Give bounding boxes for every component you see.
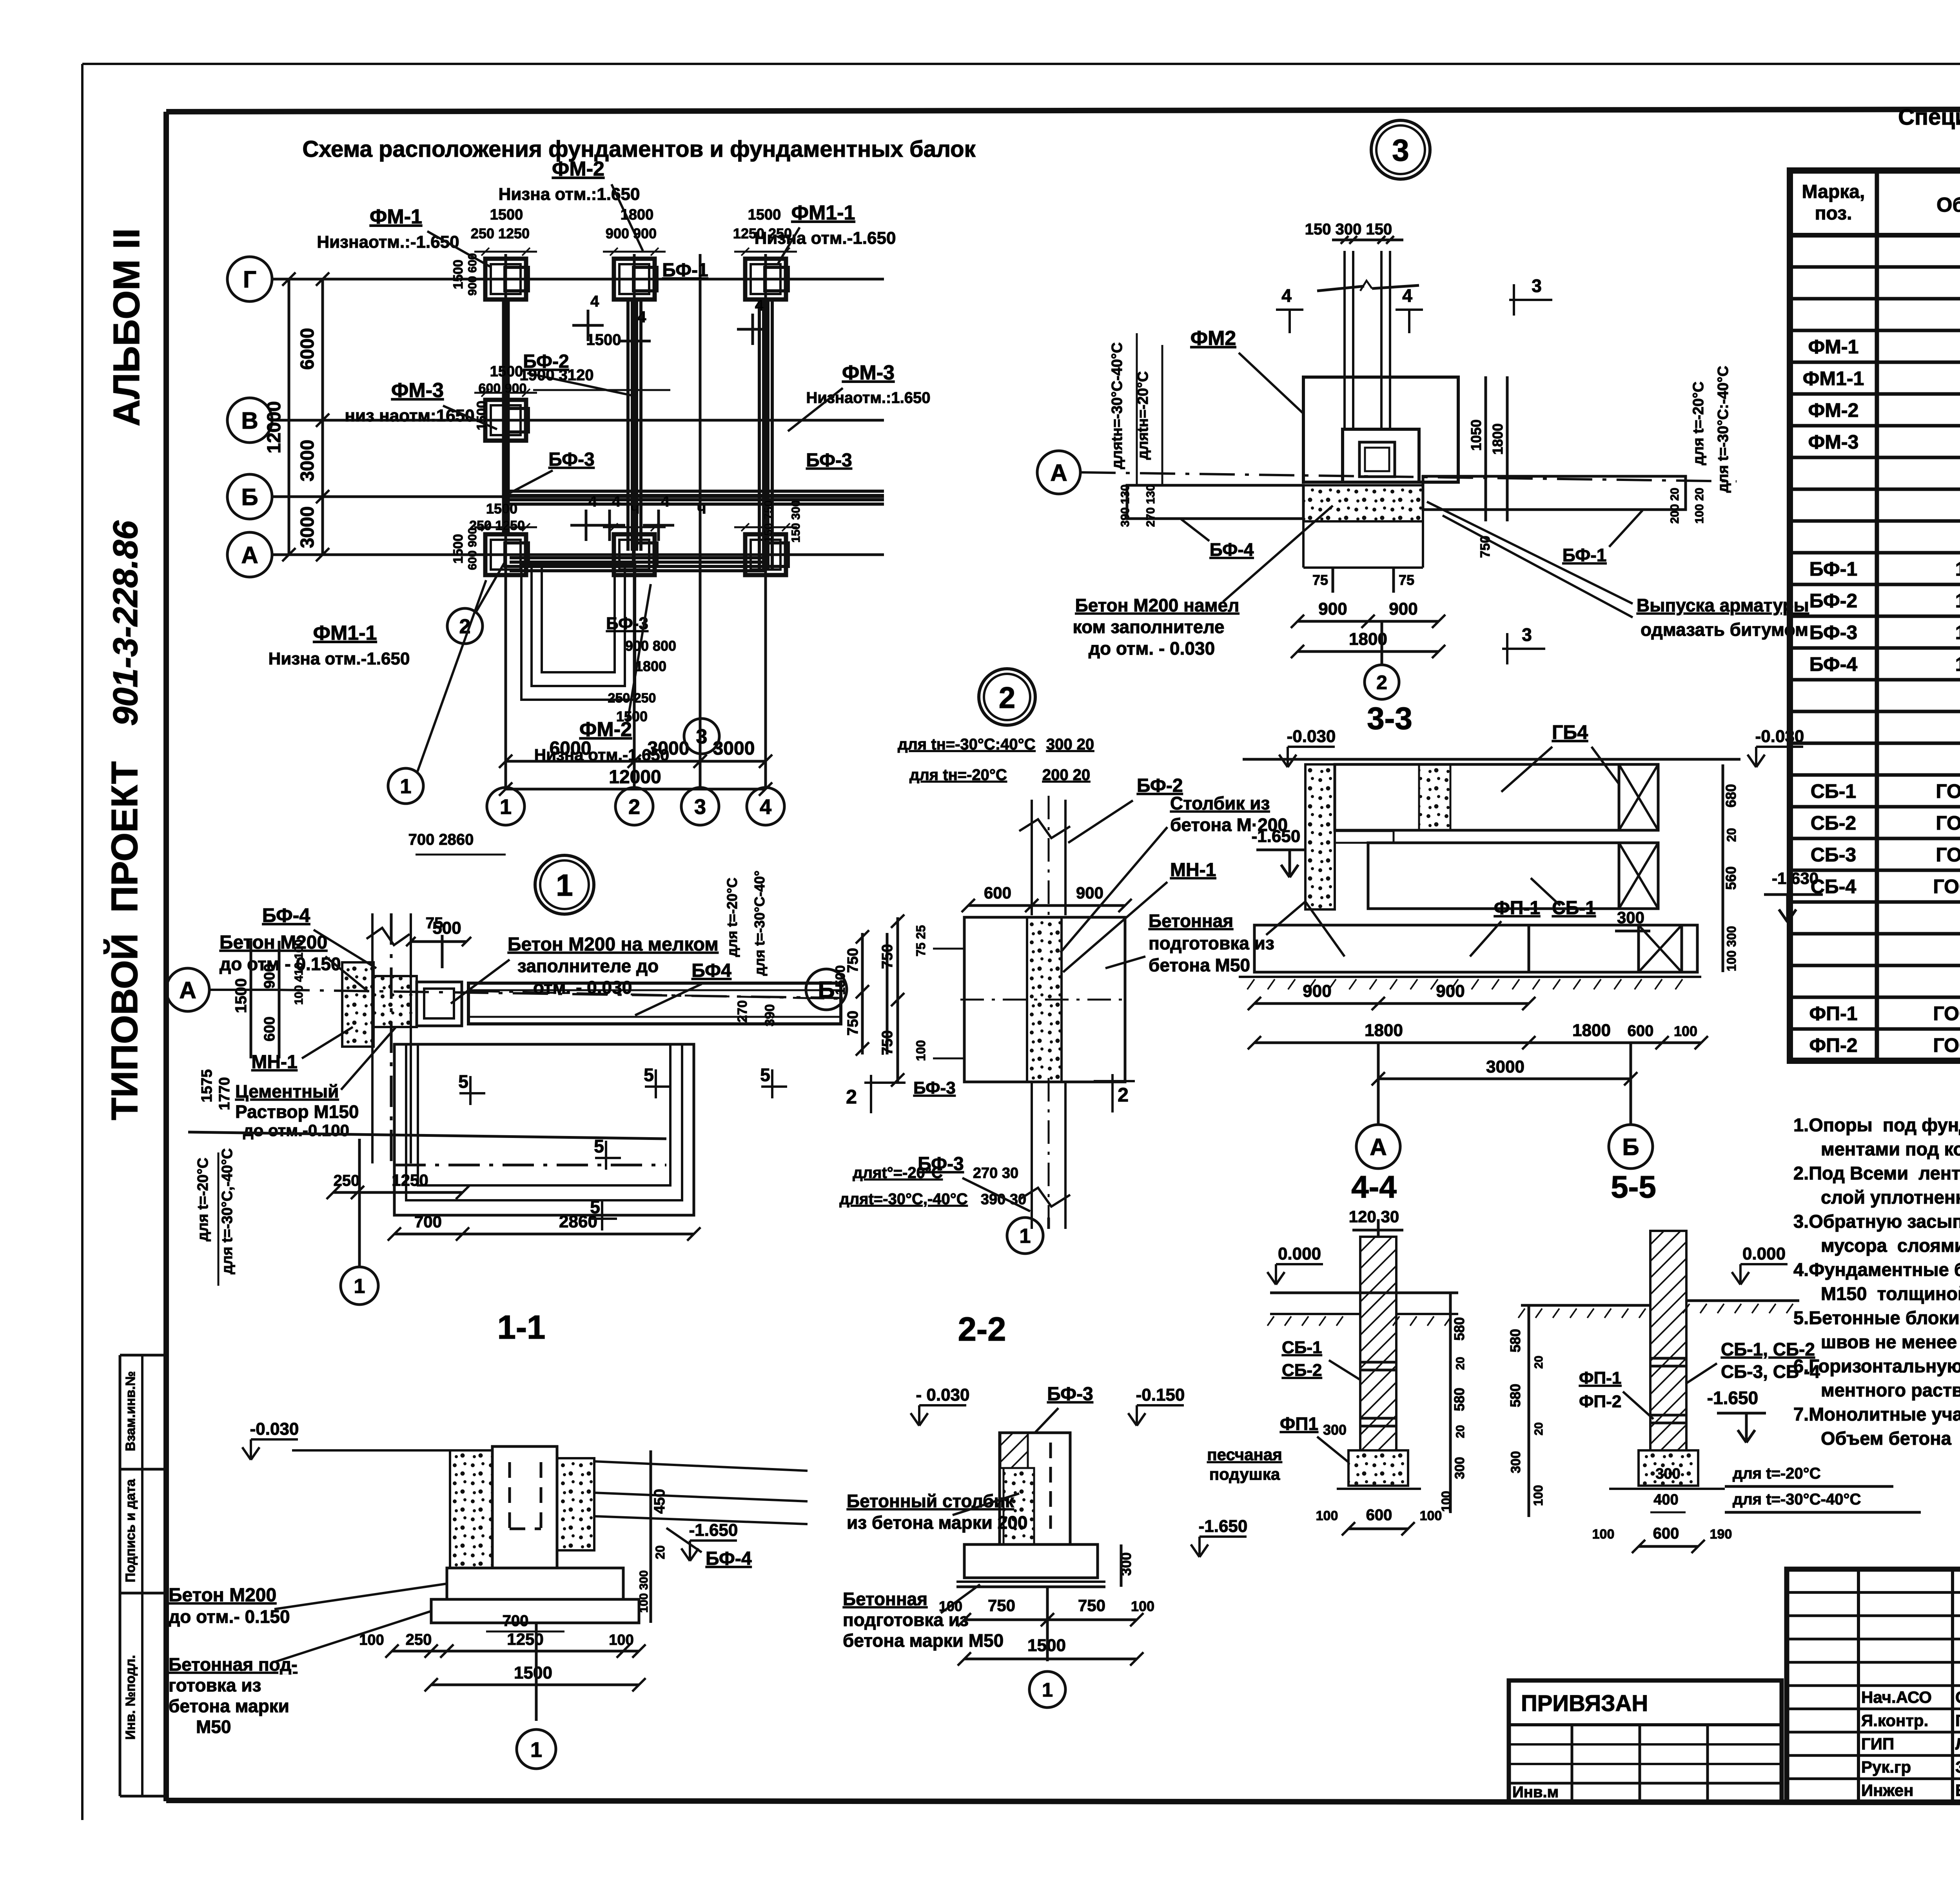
svg-text:1800: 1800 [621, 207, 654, 223]
detail 1 axis A [166, 968, 209, 1011]
detail 1 grid circle 1 below [341, 1267, 378, 1305]
svg-text:7.Монолитные участки между бло: 7.Монолитные участки между блоками выпол… [1793, 1404, 1960, 1425]
footing FM1-1 axis A col 1 [485, 534, 526, 575]
svg-text:Бетон М200 на мелком: Бетон М200 на мелком [508, 934, 719, 955]
svg-text:БФ-1: БФ-1 [1563, 545, 1607, 565]
svg-text:ГОСТ13579-78: ГОСТ13579-78 [1936, 844, 1960, 866]
svg-text:900: 900 [1318, 599, 1347, 619]
svg-text:3000: 3000 [297, 440, 318, 482]
svg-text:1500: 1500 [486, 501, 517, 517]
svg-text:Спецификация элементов к схем: Спецификация элементов к схеме расположе… [1898, 104, 1960, 130]
svg-text:100 20: 100 20 [1693, 488, 1706, 524]
svg-text:100 300: 100 300 [1724, 926, 1739, 971]
svg-text:ГОСТ13579-78: ГОСТ13579-78 [1936, 812, 1960, 834]
3-3 bottom dims [1254, 1002, 1529, 1005]
svg-text:Низнаотм.:-1.650: Низнаотм.:-1.650 [317, 232, 459, 252]
svg-text:901-3-228.86: 901-3-228.86 [106, 520, 145, 726]
svg-text:Г: Г [243, 267, 256, 293]
svg-text:75: 75 [1312, 572, 1328, 588]
svg-text:БФ4: БФ4 [691, 960, 731, 981]
3-3 column stub [1335, 831, 1394, 843]
svg-text:100: 100 [1316, 1508, 1338, 1523]
svg-text:Сорокин: Сорокин [1955, 1688, 1960, 1706]
svg-text:для t=-30°С-40°С: для t=-30°С-40°С [1733, 1491, 1861, 1508]
2-2 hatched strip [1000, 1433, 1028, 1468]
section mark 1 on plan [388, 768, 423, 804]
3-3 block row 2 [1368, 843, 1619, 909]
detail 3 right beam [1423, 476, 1686, 510]
svg-text:-1.650: -1.650 [1252, 827, 1301, 846]
svg-text:Бетон М200: Бетон М200 [169, 1585, 276, 1606]
svg-text:680: 680 [1723, 784, 1739, 808]
svg-text:450: 450 [652, 1489, 668, 1513]
plan bottom dimensions [506, 760, 766, 763]
svg-text:900 600: 900 600 [466, 253, 479, 296]
svg-text:Обозначение: Обозначение [1936, 194, 1960, 216]
svg-text:580: 580 [1507, 1384, 1523, 1407]
svg-text:СБ-2: СБ-2 [1811, 812, 1857, 834]
svg-text:100: 100 [1420, 1508, 1442, 1523]
svg-text:600: 600 [1628, 1022, 1654, 1040]
svg-text:600: 600 [1366, 1506, 1392, 1524]
svg-text:МН-1: МН-1 [251, 1052, 297, 1072]
4-4 dims right [1449, 1293, 1452, 1513]
svg-text:1800: 1800 [1572, 1021, 1611, 1040]
svg-text:ч: ч [697, 500, 706, 517]
svg-text:заполнителе до: заполнителе до [517, 956, 659, 976]
svg-text:2: 2 [1376, 671, 1387, 693]
footing FM1-1 axis A col 4 [745, 534, 786, 575]
svg-text:БФ-2: БФ-2 [1137, 775, 1183, 796]
svg-text:одмазать битумом: одмазать битумом [1641, 619, 1808, 640]
section mark 4 crosses [572, 324, 604, 327]
svg-text:СБ-1: СБ-1 [1552, 898, 1596, 918]
svg-text:900: 900 [1303, 982, 1331, 1001]
svg-text:580: 580 [1451, 1317, 1467, 1341]
svg-text:4: 4 [760, 795, 771, 818]
svg-text:700: 700 [414, 1212, 442, 1231]
svg-text:ГОСТ 13580-80: ГОСТ 13580-80 [1933, 1034, 1960, 1056]
svg-text:100: 100 [1592, 1527, 1615, 1542]
svg-text:БФ-1: БФ-1 [662, 260, 708, 281]
svg-text:1500: 1500 [490, 363, 523, 380]
svg-text:250 250: 250 250 [608, 691, 656, 706]
section mark 2 on plan [447, 608, 483, 644]
svg-text:600 900: 600 900 [466, 528, 479, 570]
svg-text:БФ-3: БФ-3 [548, 449, 595, 470]
svg-text:БФ-3: БФ-3 [913, 1078, 956, 1098]
svg-text:4: 4 [612, 493, 621, 510]
svg-text:-1.650: -1.650 [689, 1521, 738, 1540]
svg-text:100 300: 100 300 [637, 1570, 650, 1613]
svg-text:100: 100 [1531, 1485, 1545, 1506]
svg-text:ФП-2: ФП-2 [1579, 1392, 1621, 1411]
svg-text:1: 1 [1020, 1225, 1031, 1248]
svg-text:1: 1 [500, 795, 512, 818]
svg-text:4-4: 4-4 [1351, 1169, 1397, 1204]
detail 1 circle [535, 855, 594, 914]
svg-text:150 750: 150 750 [762, 500, 775, 543]
3-3 left speckled pier [1305, 764, 1335, 909]
svg-text:5: 5 [760, 1065, 770, 1085]
svg-text:ТИПОВОЙ ПРОЕКТ: ТИПОВОЙ ПРОЕКТ [103, 761, 145, 1120]
svg-text:2: 2 [1118, 1084, 1129, 1106]
3-3 X-box slab right [1639, 925, 1682, 972]
svg-text:ФМ1-1: ФМ1-1 [313, 622, 377, 644]
detail 3 foundation body [1303, 377, 1458, 482]
svg-text:300: 300 [1508, 1451, 1523, 1474]
svg-text:1250: 1250 [392, 1171, 428, 1189]
svg-text:5.Бетонные блоки укладывать на: 5.Бетонные блоки укладывать на цементном… [1793, 1307, 1960, 1328]
4-4 wall [1360, 1237, 1396, 1450]
svg-text:1.Опоры под фундаментные балк: 1.Опоры под фундаментные балки бетониров… [1793, 1114, 1960, 1135]
detail 3 right dims [1485, 376, 1487, 521]
svg-text:1800: 1800 [1490, 423, 1506, 455]
svg-text:75: 75 [426, 915, 443, 932]
svg-text:ком заполнителе: ком заполнителе [1073, 617, 1225, 637]
svg-text:3000: 3000 [1486, 1057, 1524, 1076]
svg-text:3-3: 3-3 [1367, 701, 1412, 736]
svg-text:песчаная: песчаная [1207, 1445, 1282, 1464]
svg-text:бетона М50: бетона М50 [1149, 955, 1250, 975]
svg-text:900 900: 900 900 [606, 225, 657, 241]
title block [1787, 1569, 1960, 1802]
svg-text:ФМ-2: ФМ-2 [552, 158, 604, 180]
svg-text:Марка,: Марка, [1802, 181, 1865, 202]
svg-text:100: 100 [914, 1040, 928, 1061]
detail 2 circle top [979, 669, 1035, 725]
svg-text:А: А [1050, 460, 1067, 486]
svg-text:250 1250: 250 1250 [471, 225, 530, 241]
svg-text:1770: 1770 [216, 1077, 233, 1111]
svg-text:20: 20 [1724, 828, 1739, 842]
column grid lines [505, 254, 507, 787]
detail 1 left dim stack [250, 941, 252, 1058]
svg-text:Грунин: Грунин [1955, 1711, 1960, 1729]
detail 3 axis A line [1037, 451, 1080, 494]
3-3 X-box row 2 [1619, 843, 1658, 909]
svg-text:4: 4 [590, 293, 599, 310]
svg-text:СБ-3: СБ-3 [1811, 844, 1857, 866]
detail 1 speckled footing plan [342, 962, 374, 1047]
svg-text:1.415 В.1: 1.415 В.1 [1955, 653, 1960, 675]
pit nested rectangles below axis A [521, 564, 635, 700]
svg-text:3000: 3000 [297, 506, 318, 548]
svg-text:БФ-4: БФ-4 [1210, 539, 1254, 560]
footing FM-2 axis G col 2 [614, 259, 655, 299]
3-3 top slab line [1243, 758, 1740, 761]
svg-text:6000: 6000 [297, 328, 318, 370]
svg-text:3: 3 [1392, 133, 1409, 167]
svg-text:1500: 1500 [451, 534, 466, 564]
svg-text:4.Фундаментные балки укладыват: 4.Фундаментные балки укладывать на слой … [1793, 1259, 1960, 1280]
svg-text:1-1: 1-1 [497, 1309, 546, 1346]
svg-text:20: 20 [653, 1545, 667, 1559]
svg-text:дляtн=-30°С-40°С: дляtн=-30°С-40°С [1109, 342, 1125, 469]
svg-text:1.415 В.1: 1.415 В.1 [1955, 622, 1960, 644]
svg-text:-1.650: -1.650 [1707, 1388, 1758, 1408]
svg-text:1575: 1575 [199, 1069, 215, 1103]
svg-text:Б: Б [818, 977, 835, 1003]
detail 3 circle [1371, 120, 1430, 179]
5-5 wall [1650, 1231, 1686, 1450]
svg-text:580: 580 [1507, 1329, 1523, 1352]
svg-text:190: 190 [1710, 1527, 1732, 1542]
1-1 column [492, 1446, 557, 1568]
svg-text:4: 4 [755, 297, 764, 314]
svg-text:В: В [241, 408, 258, 434]
svg-text:Бетон М200 намел: Бетон М200 намел [1075, 595, 1240, 615]
svg-text:дляt=-30°С,-40°С: дляt=-30°С,-40°С [839, 1190, 967, 1208]
2-2 base [964, 1544, 1098, 1578]
svg-text:СБ-2: СБ-2 [1282, 1361, 1322, 1380]
detail 1 bottom dims [333, 1191, 463, 1194]
svg-text:Инв.м: Инв.м [1512, 1784, 1559, 1801]
svg-text:ФМ1-1: ФМ1-1 [791, 201, 855, 224]
svg-text:Власова: Власова [1955, 1781, 1960, 1800]
svg-text:5: 5 [594, 1136, 604, 1156]
svg-text:Инв. №подл.: Инв. №подл. [123, 1655, 138, 1740]
privyazan box [1509, 1680, 1782, 1802]
svg-text:МН-1: МН-1 [1170, 860, 1216, 880]
svg-text:100: 100 [1674, 1023, 1697, 1039]
svg-text:БФ-3: БФ-3 [918, 1154, 964, 1174]
svg-text:20: 20 [1454, 1357, 1467, 1370]
svg-text:400: 400 [1653, 1492, 1678, 1508]
svg-text:900: 900 [1436, 982, 1465, 1001]
svg-text:120 30: 120 30 [1349, 1207, 1399, 1226]
svg-text:Рук.гр: Рук.гр [1861, 1758, 1911, 1776]
svg-text:750: 750 [1078, 1596, 1105, 1615]
svg-text:ПРИВЯЗАН: ПРИВЯЗАН [1521, 1691, 1648, 1716]
svg-text:для t=-20°С: для t=-20°С [1690, 381, 1707, 465]
svg-text:БФ-3: БФ-3 [806, 450, 852, 471]
svg-text:СБ-1: СБ-1 [1282, 1338, 1322, 1357]
svg-text:Б: Б [1622, 1134, 1639, 1160]
sheet outer trim line [82, 63, 1960, 65]
svg-text:12000: 12000 [264, 401, 285, 453]
svg-text:для t=-20°С: для t=-20°С [724, 878, 740, 957]
svg-text:100 410 100: 100 410 100 [292, 940, 305, 1005]
svg-text:бетона марки: бетона марки [169, 1696, 289, 1716]
svg-text:270 30: 270 30 [973, 1165, 1018, 1181]
svg-text:1.415 В.1: 1.415 В.1 [1955, 590, 1960, 612]
svg-text:мусора слоями неболее 200мм с: мусора слоями неболее 200мм с уплотнение… [1821, 1235, 1960, 1256]
3-3 foundation slabs [1254, 925, 1529, 972]
svg-text:5: 5 [644, 1065, 654, 1085]
svg-text:ФМ-2: ФМ-2 [1808, 399, 1859, 421]
svg-text:300: 300 [1452, 1457, 1467, 1479]
detail 1 axis B right [806, 969, 847, 1010]
svg-text:1500: 1500 [451, 260, 466, 289]
svg-text:для tн=-30°С:40°С: для tн=-30°С:40°С [898, 736, 1035, 753]
svg-text:4: 4 [637, 309, 646, 326]
detail 1 vertical beam lines [371, 913, 374, 1163]
svg-text:3: 3 [696, 726, 708, 748]
3-3 block row 1 [1335, 764, 1619, 830]
svg-text:для t=-20°С: для t=-20°С [1733, 1465, 1821, 1482]
detail 1 beam BF4 to right [468, 983, 841, 1024]
svg-text:150 300 150: 150 300 150 [1305, 221, 1392, 238]
svg-text:БФ-3: БФ-3 [1047, 1384, 1093, 1405]
svg-text:Б: Б [241, 484, 258, 510]
svg-text:М150 толщиной 20мм: М150 толщиной 20мм [1821, 1283, 1960, 1304]
svg-text:700: 700 [503, 1612, 529, 1630]
svg-text:Низнаотм.:1.650: Низнаотм.:1.650 [806, 389, 931, 406]
svg-text:900: 900 [261, 964, 278, 988]
svg-text:0.000: 0.000 [1742, 1244, 1786, 1263]
4-4 SB labels inner [1377, 1219, 1380, 1237]
1-1 wall left speckled [450, 1450, 492, 1568]
svg-text:20: 20 [1454, 1425, 1467, 1438]
svg-text:4: 4 [588, 493, 597, 510]
svg-text:1500: 1500 [514, 1663, 552, 1682]
svg-text:250: 250 [406, 1631, 432, 1648]
1-1 wall right speckled [557, 1458, 594, 1550]
svg-text:100: 100 [1131, 1598, 1154, 1614]
detail 1 nested pit rectangles [394, 1044, 694, 1215]
5-5 base block [1639, 1450, 1698, 1486]
svg-text:поз.: поз. [1815, 203, 1852, 224]
svg-text:для t=-30°С,-40°С: для t=-30°С,-40°С [219, 1148, 236, 1274]
svg-text:300: 300 [1617, 908, 1644, 927]
svg-text:СБ-4: СБ-4 [1811, 876, 1857, 898]
svg-text:-0.030: -0.030 [1287, 727, 1336, 746]
svg-text:ФМ2: ФМ2 [1191, 327, 1236, 350]
svg-text:ФМ-1: ФМ-1 [370, 205, 422, 228]
svg-text:1500: 1500 [616, 708, 648, 724]
axis A [227, 532, 272, 577]
svg-text:5-5: 5-5 [1611, 1169, 1656, 1204]
svg-text:Подпись и дата: Подпись и дата [123, 1479, 138, 1582]
svg-text:2: 2 [628, 795, 640, 818]
svg-text:4: 4 [1402, 285, 1412, 306]
axis V [227, 398, 272, 443]
svg-text:ч: ч [630, 500, 639, 517]
svg-text:1: 1 [354, 1275, 365, 1298]
svg-text:ФП-2: ФП-2 [1809, 1034, 1857, 1056]
svg-text:Бетонная: Бетонная [843, 1589, 927, 1609]
svg-text:20: 20 [1532, 1356, 1545, 1368]
svg-text:2: 2 [999, 681, 1015, 715]
svg-text:отм. - 0.030: отм. - 0.030 [533, 977, 632, 998]
axis G [227, 257, 272, 301]
svg-text:слой уплотненного песка h=10: слой уплотненного песка h=100мм. [1821, 1187, 1960, 1208]
svg-text:ГОСТ13579-78: ГОСТ13579-78 [1936, 780, 1960, 802]
svg-text:1500: 1500 [474, 401, 489, 430]
svg-text:600: 600 [1653, 1525, 1679, 1542]
footing FM-2 axis A col 2 [614, 534, 655, 575]
1-1 dims right rotated [650, 1450, 652, 1623]
svg-text:БФ-3: БФ-3 [1809, 622, 1857, 644]
svg-text:ГБ4: ГБ4 [1552, 721, 1588, 743]
svg-text:Я.контр.: Я.контр. [1861, 1711, 1928, 1729]
svg-text:ГИП: ГИП [1861, 1735, 1894, 1753]
svg-text:БФ-4: БФ-4 [1809, 653, 1858, 675]
svg-text:3: 3 [694, 795, 706, 818]
svg-text:1500: 1500 [748, 207, 781, 223]
svg-text:ментами под колонны в той же: ментами под колонны в той же опалубке. [1821, 1139, 1960, 1160]
grid circles 1-4 [487, 788, 524, 825]
3-3 axis circles [1356, 1125, 1400, 1169]
svg-text:- 0.030: - 0.030 [916, 1385, 970, 1405]
detail 3 left beam [1127, 485, 1303, 519]
svg-text:Схема расположения фундаментов: Схема расположения фундаментов и фундаме… [302, 136, 976, 162]
svg-text:Нач.АСО: Нач.АСО [1861, 1688, 1932, 1706]
svg-text:750: 750 [845, 1011, 861, 1035]
svg-text:АЛЬБОМ II: АЛЬБОМ II [106, 228, 147, 426]
1-1 axis circle below [535, 1623, 538, 1721]
foundation beam bundles [626, 301, 630, 551]
3-3 X-box row 1 [1619, 764, 1658, 830]
svg-text:300: 300 [1323, 1422, 1347, 1438]
footing FM-3 axis V col 1 [485, 400, 526, 441]
detail 2 bottom circle 1 [1007, 1218, 1043, 1254]
vertical dimension chains [321, 279, 324, 555]
svg-text:270 130: 270 130 [1144, 485, 1157, 527]
svg-text:600: 600 [261, 1016, 278, 1041]
main drawing frame [166, 109, 1960, 112]
svg-text:ФМ-3: ФМ-3 [842, 361, 895, 384]
svg-text:1500: 1500 [232, 978, 250, 1013]
svg-text:ментного раствора состава 1:2: ментного раствора состава 1:2 толщиной 3… [1821, 1380, 1960, 1401]
svg-text:Цементный: Цементный [235, 1081, 339, 1102]
5-5 left dims [1528, 1305, 1530, 1517]
svg-text:300 20: 300 20 [1046, 736, 1094, 753]
svg-text:1050: 1050 [1468, 419, 1484, 451]
svg-text:-1.650: -1.650 [1199, 1517, 1248, 1536]
svg-text:СБ-1: СБ-1 [1811, 780, 1857, 802]
svg-text:БФ-1: БФ-1 [1809, 558, 1857, 580]
svg-text:1500: 1500 [833, 965, 848, 995]
svg-text:А: А [241, 542, 258, 568]
svg-text:А: А [1370, 1134, 1387, 1160]
svg-text:бетона марки М50: бетона марки М50 [843, 1630, 1004, 1651]
2-2 column [1000, 1433, 1070, 1544]
svg-text:270: 270 [735, 1000, 750, 1023]
svg-text:до отм.-0.100: до отм.-0.100 [243, 1121, 349, 1140]
1-1 beam to right [594, 1461, 808, 1471]
detail 2 foundation square [964, 917, 1125, 1082]
svg-text:4: 4 [1281, 285, 1292, 306]
detail 2 left dims [897, 917, 899, 1082]
2-2 axis circle [1046, 1587, 1049, 1661]
svg-text:150 300: 150 300 [789, 500, 802, 543]
footing FM1-1 axis G col 4 [745, 259, 786, 299]
svg-text:1.415 В.1: 1.415 В.1 [1955, 558, 1960, 580]
3-3 right rotated dims [1722, 764, 1724, 972]
svg-text:ФМ-3: ФМ-3 [1808, 431, 1859, 453]
svg-text:Закубанский: Закубанский [1955, 1758, 1960, 1776]
svg-text:швов не менее 300мм: швов не менее 300мм [1821, 1332, 1960, 1352]
svg-text:750: 750 [879, 944, 896, 969]
svg-text:600: 600 [984, 884, 1011, 902]
svg-text:2-2: 2-2 [958, 1311, 1006, 1348]
svg-text:-0.150: -0.150 [1136, 1385, 1185, 1405]
svg-text:Раствор М150: Раствор М150 [235, 1102, 359, 1122]
svg-text:Столбик из: Столбик из [1170, 793, 1270, 813]
svg-text:200 20: 200 20 [1668, 488, 1681, 524]
svg-text:390: 390 [762, 1004, 777, 1027]
detail 1 lower axis line [188, 1132, 666, 1139]
svg-text:300: 300 [1655, 1466, 1680, 1482]
axis B [227, 474, 272, 519]
svg-text:1900 3120: 1900 3120 [519, 367, 593, 384]
svg-text:12000: 12000 [609, 767, 661, 788]
svg-text:Объем бетона на монолитные уч: Объем бетона на монолитные участки- 0,95… [1821, 1428, 1960, 1449]
svg-text:готовка из: готовка из [169, 1675, 261, 1695]
5-5 block joints [1650, 1357, 1686, 1360]
